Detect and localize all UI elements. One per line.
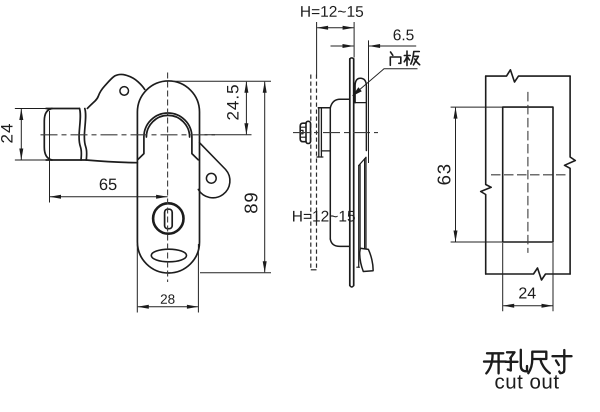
knob ridge 2 [300,136,306,138]
arrow 24.5 up [244,81,248,93]
dimensions right view [451,107,553,311]
boss step tick [321,150,330,152]
6.5 dim right tail [369,45,416,47]
bottom cap tick [311,269,317,271]
hanzi kong (hole) [506,350,528,372]
dim 28 line [138,306,198,308]
arrow 89 down [263,261,267,273]
dim 28 ext lines [137,244,198,313]
arrow 24 right [542,304,554,308]
svg-text:24.5: 24.5 [224,83,243,120]
hidden line B (grip plane) [316,75,318,270]
mounting tab top-left [87,75,144,109]
cutout vertical centerline [527,92,529,253]
arrow H left [317,26,329,30]
hanzi panel (ban) [404,51,420,66]
door panel back line [353,59,355,286]
dim 24.5 ext top (shared with 89) [172,80,271,82]
boss left edge a [318,108,320,157]
dimension texts left view [0,83,262,306]
cutout horizontal centerline [491,174,568,176]
H dim line [317,27,354,29]
leader line to door panel label [353,69,418,96]
hanzi chi (rule) [528,352,550,374]
cam hub bulge [355,78,366,150]
handle top edge [46,108,80,110]
dim 65 ext line [49,111,51,203]
dim 24 line [20,109,22,160]
door panel top cap [350,58,354,59]
handle bottom edge [46,159,86,161]
hanzi cun (inch) [553,350,572,373]
svg-text:6.5: 6.5 [393,27,415,44]
hidden/section lines middle view [311,75,317,270]
centerlines left view [41,73,216,283]
arrow 28 right [187,305,199,309]
head front face [329,108,331,239]
dimensions middle view [317,22,418,163]
dim 63 ext top [451,106,502,108]
arrow 65 right [156,195,168,199]
cam plate left edge (double) [359,164,360,267]
knob ridge 1 [300,126,306,128]
tab hole top-left [120,87,129,96]
handle break S-curve 2 [84,109,86,161]
panel outline top edge with break [486,70,570,82]
panel outline bottom edge with break [486,268,570,280]
hidden line A [310,75,312,270]
arrow 6.5 right (outside) [369,44,381,48]
dim 63 line [455,108,457,242]
svg-text:H=12~15: H=12~15 [292,208,356,225]
H dim ext right [353,22,355,58]
H dim ext left [316,22,318,75]
boss bottom cap [317,156,323,158]
centerline middle view [293,132,378,134]
svg-text:28: 28 [160,292,175,307]
arrowheads middle view [317,26,381,96]
knob flange [306,121,311,143]
right tab hole [206,173,216,183]
arrowheads right view [454,107,554,308]
dim 24 line [503,305,552,307]
keyhole slot [165,209,173,229]
panel outline left edge with break [481,76,492,274]
arrow 28 left [137,305,149,309]
cylinder axis centerline [293,132,378,134]
handle bottom edge ext [15,159,46,161]
6.5 ext right [368,40,370,163]
arrow 63 down [454,231,458,243]
right tab (teardrop) [198,143,230,198]
handle end cap [44,109,52,161]
arrow 24 down [19,149,23,161]
svg-text:89: 89 [241,192,262,214]
dimension texts right view [434,163,537,302]
boss inner line [320,108,322,157]
centerlines right view [491,92,568,253]
cam plate top diagonal [359,157,366,165]
dim 63 ext bottom [451,241,502,243]
dimension texts middle view [292,4,414,226]
handle bottom edge to body [86,160,137,163]
dim 24.5 ext bottom [205,134,252,136]
knob body [300,123,306,142]
dimensions left view [21,81,271,312]
arrow leader (door panel) [352,87,362,96]
arrow 24.5 down [244,123,248,135]
dim 89 ext bottom [200,272,271,274]
boss shoulder top [318,107,330,109]
vertical centerline [167,73,169,283]
dim 65 line [50,196,168,198]
arrow 89 up [263,81,267,93]
dim 24 ext lines [503,243,553,311]
arrow 24 up [19,109,23,121]
6.5 dim left tail [331,45,354,47]
cam foot [360,248,373,271]
door panel front line [349,59,351,286]
arrow 63 up [454,107,458,119]
svg-text:24: 24 [518,285,536,302]
head bottom arc to panel [330,239,349,246]
svg-text:65: 65 [99,176,117,194]
handle break S-curve 1 [79,109,81,161]
arrow 65 left [50,195,62,199]
cam plate right edge (double) [365,157,366,248]
arrowheads left view [19,81,266,308]
panel outline right edge with break [565,76,576,274]
door panel label (hand-drawn CJK) [390,51,419,66]
knob key slot notch [300,130,303,133]
inner arch inner arc [146,115,189,137]
body outline (stadium) [137,81,199,273]
hanzi kai (open) [484,353,506,373]
svg-text:cut out: cut out [494,370,559,393]
bottom oval hole [151,249,186,262]
hanzi door (men) [390,52,401,65]
head top arc to panel [330,99,349,108]
cam hub bottom tick [355,102,366,104]
door panel bottom cap [350,286,354,288]
svg-text:63: 63 [434,163,455,185]
caption: cut out size (hand-drawn CJK) [484,350,572,374]
key cylinder [153,203,183,233]
svg-text:H=12~15: H=12~15 [300,4,364,21]
horizontal centerline [41,134,216,136]
arrow 24 left [503,304,515,308]
svg-text:24: 24 [0,123,16,144]
handle top edge ext [15,108,46,110]
dim 24.5 line [245,82,247,135]
dim 89 line [264,82,266,272]
cam foot step tick [357,266,360,268]
arrow 6.5 left (outside) [343,44,355,48]
arrow H right [343,26,355,30]
inner arch outer [138,113,199,160]
caption: cut out english [494,370,559,393]
cutout rectangle [503,107,553,242]
